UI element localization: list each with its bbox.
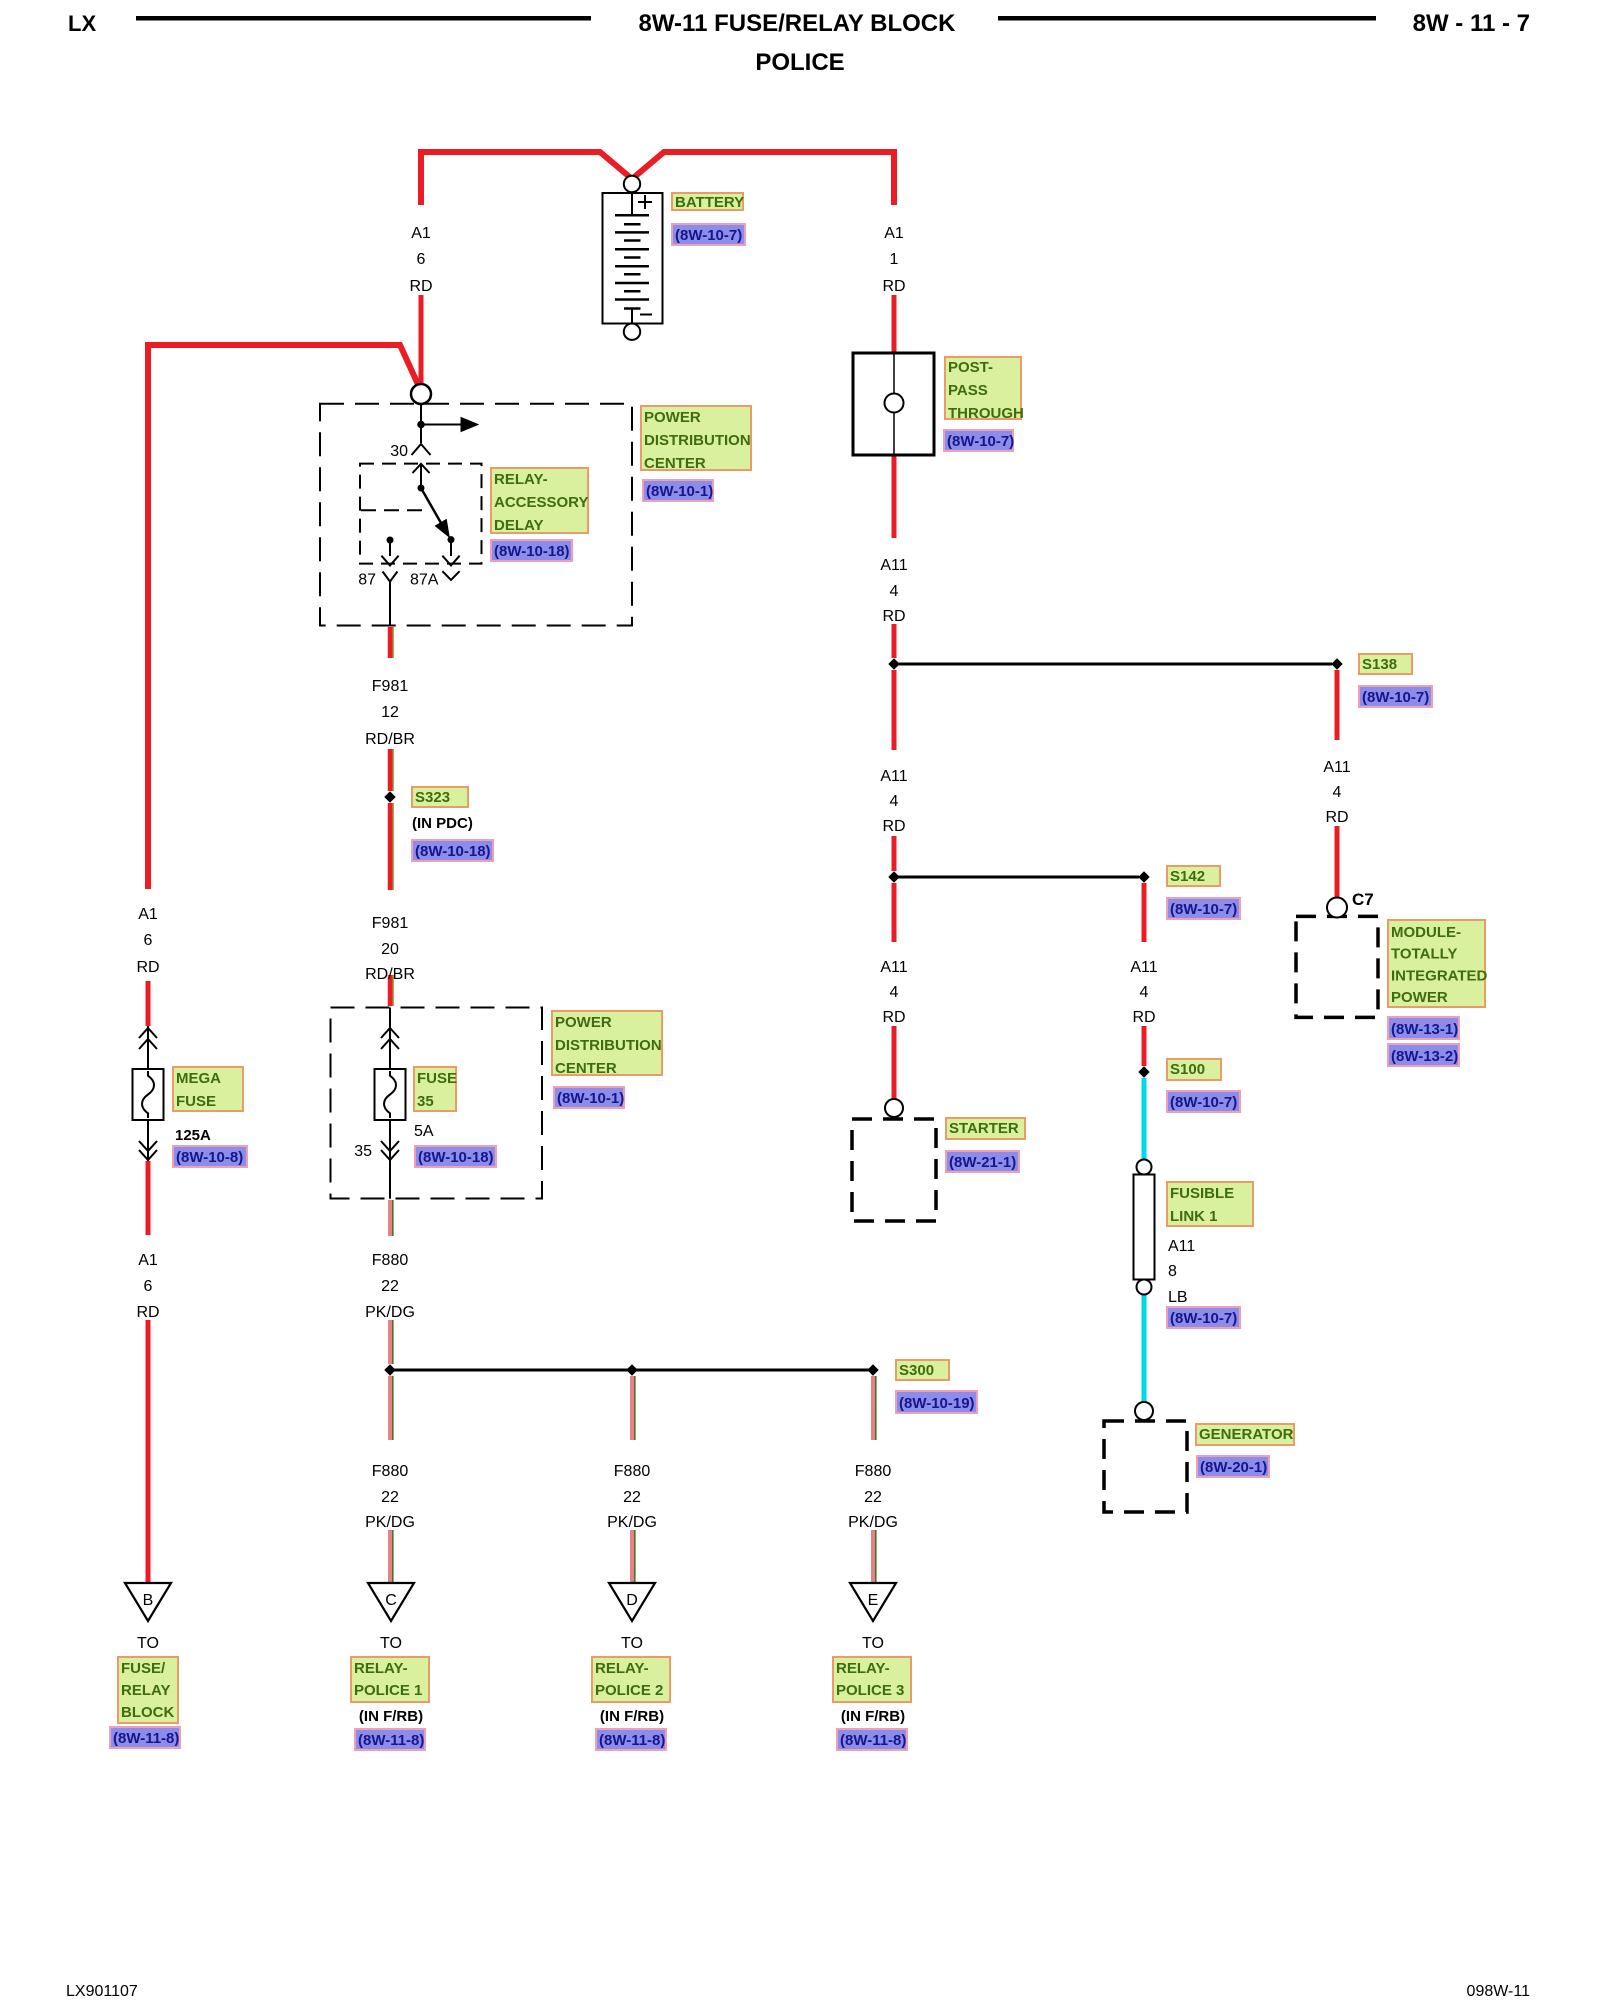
svg-text:098W-11: 098W-11	[1467, 1983, 1531, 2000]
svg-text:8W-11 FUSE/RELAY BLOCK: 8W-11 FUSE/RELAY BLOCK	[639, 10, 957, 37]
svg-text:LB: LB	[1168, 1289, 1188, 1306]
svg-text:C: C	[385, 1592, 397, 1609]
svg-text:MEGA: MEGA	[176, 1070, 221, 1087]
svg-text:POLICE 1: POLICE 1	[354, 1682, 422, 1699]
svg-text:PK/DG: PK/DG	[848, 1514, 898, 1531]
svg-text:(8W-11-8): (8W-11-8)	[840, 1732, 906, 1749]
svg-text:RELAY-: RELAY-	[354, 1660, 408, 1677]
svg-text:4: 4	[890, 583, 899, 600]
svg-text:S138: S138	[1362, 656, 1397, 673]
svg-text:A1: A1	[411, 225, 431, 242]
svg-text:B: B	[143, 1592, 154, 1609]
svg-text:RD/BR: RD/BR	[365, 966, 415, 983]
svg-text:PASS: PASS	[948, 382, 988, 399]
svg-text:PK/DG: PK/DG	[365, 1514, 415, 1531]
svg-text:4: 4	[1333, 784, 1342, 801]
svg-text:RELAY-: RELAY-	[836, 1660, 890, 1677]
svg-text:ACCESSORY: ACCESSORY	[494, 494, 588, 511]
svg-text:35: 35	[354, 1143, 372, 1160]
svg-text:(8W-11-8): (8W-11-8)	[113, 1730, 179, 1747]
svg-text:DISTRIBUTION: DISTRIBUTION	[644, 432, 751, 449]
svg-text:LX901107: LX901107	[66, 1983, 138, 2000]
svg-text:(8W-10-7): (8W-10-7)	[675, 227, 742, 244]
svg-text:RD: RD	[882, 1009, 905, 1026]
svg-text:RD: RD	[882, 818, 905, 835]
svg-text:STARTER: STARTER	[949, 1120, 1019, 1137]
svg-text:22: 22	[381, 1278, 399, 1295]
svg-text:(IN PDC): (IN PDC)	[412, 815, 473, 832]
svg-text:(8W-13-2): (8W-13-2)	[1391, 1048, 1458, 1065]
svg-text:22: 22	[381, 1489, 399, 1506]
svg-text:(8W-11-8): (8W-11-8)	[599, 1732, 665, 1749]
svg-text:22: 22	[623, 1489, 641, 1506]
svg-text:F981: F981	[372, 915, 409, 932]
svg-text:RELAY: RELAY	[121, 1682, 170, 1699]
svg-text:6: 6	[144, 1278, 153, 1295]
svg-text:BATTERY: BATTERY	[675, 194, 744, 211]
svg-text:RD: RD	[136, 959, 159, 976]
svg-text:S142: S142	[1170, 868, 1205, 885]
svg-text:RD: RD	[1325, 809, 1348, 826]
svg-text:F981: F981	[372, 678, 409, 695]
svg-text:A11: A11	[1130, 959, 1157, 976]
svg-text:POLICE 3: POLICE 3	[836, 1682, 904, 1699]
svg-text:(8W-10-7): (8W-10-7)	[1170, 1310, 1237, 1327]
svg-text:TO: TO	[862, 1635, 884, 1652]
svg-text:TO: TO	[137, 1635, 159, 1652]
svg-text:87A: 87A	[410, 571, 439, 588]
svg-text:(8W-10-18): (8W-10-18)	[418, 1149, 494, 1166]
svg-text:125A: 125A	[175, 1127, 211, 1144]
svg-text:S323: S323	[415, 789, 450, 806]
svg-text:POLICE: POLICE	[755, 49, 844, 76]
svg-text:(8W-10-18): (8W-10-18)	[415, 843, 491, 860]
svg-text:(IN F/RB): (IN F/RB)	[600, 1708, 664, 1725]
svg-text:RD: RD	[882, 608, 905, 625]
svg-text:4: 4	[1140, 984, 1149, 1001]
svg-text:C7: C7	[1352, 890, 1374, 909]
svg-text:CENTER: CENTER	[555, 1060, 617, 1077]
svg-text:(8W-10-7): (8W-10-7)	[1170, 901, 1237, 918]
svg-text:RD: RD	[136, 1304, 159, 1321]
svg-text:6: 6	[417, 251, 426, 268]
svg-text:4: 4	[890, 793, 899, 810]
svg-text:(8W-20-1): (8W-20-1)	[1200, 1459, 1267, 1476]
svg-text:DELAY: DELAY	[494, 517, 543, 534]
svg-text:6: 6	[144, 932, 153, 949]
svg-text:E: E	[868, 1592, 879, 1609]
svg-text:(8W-10-1): (8W-10-1)	[557, 1090, 624, 1107]
svg-text:TO: TO	[380, 1635, 402, 1652]
svg-text:CENTER: CENTER	[644, 455, 706, 472]
svg-text:A1: A1	[138, 1252, 158, 1269]
svg-text:LINK 1: LINK 1	[1170, 1208, 1218, 1225]
svg-text:RD/BR: RD/BR	[365, 731, 415, 748]
svg-text:(8W-10-8): (8W-10-8)	[176, 1149, 243, 1166]
svg-text:PK/DG: PK/DG	[365, 1304, 415, 1321]
svg-text:F880: F880	[372, 1252, 409, 1269]
svg-text:RELAY-: RELAY-	[595, 1660, 649, 1677]
svg-text:D: D	[626, 1592, 638, 1609]
svg-text:RD: RD	[409, 278, 432, 295]
svg-text:FUSE: FUSE	[417, 1070, 457, 1087]
svg-text:12: 12	[381, 704, 399, 721]
svg-text:POWER: POWER	[644, 409, 701, 426]
svg-text:FUSE/: FUSE/	[121, 1660, 166, 1677]
svg-text:S300: S300	[899, 1362, 934, 1379]
svg-text:4: 4	[890, 984, 899, 1001]
svg-text:8: 8	[1168, 1263, 1177, 1280]
svg-text:GENERATOR: GENERATOR	[1199, 1426, 1294, 1443]
svg-text:A11: A11	[880, 557, 907, 574]
svg-text:PK/DG: PK/DG	[607, 1514, 657, 1531]
svg-text:TO: TO	[621, 1635, 643, 1652]
svg-text:(8W-10-7): (8W-10-7)	[947, 433, 1014, 450]
svg-text:S100: S100	[1170, 1061, 1205, 1078]
svg-text:RELAY-: RELAY-	[494, 471, 548, 488]
svg-text:22: 22	[864, 1489, 882, 1506]
svg-text:30: 30	[390, 443, 408, 460]
svg-text:RD: RD	[882, 278, 905, 295]
svg-text:A1: A1	[884, 225, 904, 242]
svg-text:INTEGRATED: INTEGRATED	[1391, 967, 1488, 984]
svg-text:(8W-13-1): (8W-13-1)	[1391, 1021, 1458, 1038]
svg-text:F880: F880	[614, 1463, 651, 1480]
svg-text:(IN F/RB): (IN F/RB)	[841, 1708, 905, 1725]
svg-text:LX: LX	[68, 11, 96, 36]
svg-text:(8W-10-19): (8W-10-19)	[899, 1395, 975, 1412]
svg-text:A11: A11	[1323, 759, 1350, 776]
svg-text:A1: A1	[138, 906, 158, 923]
svg-text:(8W-10-18): (8W-10-18)	[494, 543, 570, 560]
svg-text:THROUGH: THROUGH	[948, 405, 1024, 422]
svg-text:A11: A11	[880, 768, 907, 785]
svg-text:FUSE: FUSE	[176, 1093, 216, 1110]
svg-text:(8W-10-1): (8W-10-1)	[646, 483, 713, 500]
svg-text:87: 87	[358, 571, 376, 588]
svg-text:(8W-10-7): (8W-10-7)	[1362, 689, 1429, 706]
svg-text:DISTRIBUTION: DISTRIBUTION	[555, 1037, 662, 1054]
svg-text:20: 20	[381, 941, 399, 958]
svg-text:1: 1	[890, 251, 899, 268]
svg-text:A11: A11	[880, 959, 907, 976]
svg-text:MODULE-: MODULE-	[1391, 924, 1461, 941]
svg-text:A11: A11	[1168, 1238, 1195, 1255]
svg-text:TOTALLY: TOTALLY	[1391, 946, 1457, 963]
svg-text:POWER: POWER	[555, 1014, 612, 1031]
svg-text:35: 35	[417, 1093, 434, 1110]
svg-text:F880: F880	[855, 1463, 892, 1480]
svg-text:POLICE 2: POLICE 2	[595, 1682, 663, 1699]
svg-text:BLOCK: BLOCK	[121, 1704, 174, 1721]
svg-text:RD: RD	[1132, 1009, 1155, 1026]
svg-text:8W - 11 - 7: 8W - 11 - 7	[1413, 10, 1530, 37]
svg-text:(8W-21-1): (8W-21-1)	[949, 1154, 1016, 1171]
svg-text:5A: 5A	[414, 1123, 434, 1140]
svg-text:(8W-11-8): (8W-11-8)	[358, 1732, 424, 1749]
svg-text:POST-: POST-	[948, 359, 993, 376]
svg-text:(8W-10-7): (8W-10-7)	[1170, 1094, 1237, 1111]
svg-text:(IN F/RB): (IN F/RB)	[359, 1708, 423, 1725]
svg-text:FUSIBLE: FUSIBLE	[1170, 1185, 1234, 1202]
svg-text:POWER: POWER	[1391, 989, 1448, 1006]
svg-text:F880: F880	[372, 1463, 409, 1480]
